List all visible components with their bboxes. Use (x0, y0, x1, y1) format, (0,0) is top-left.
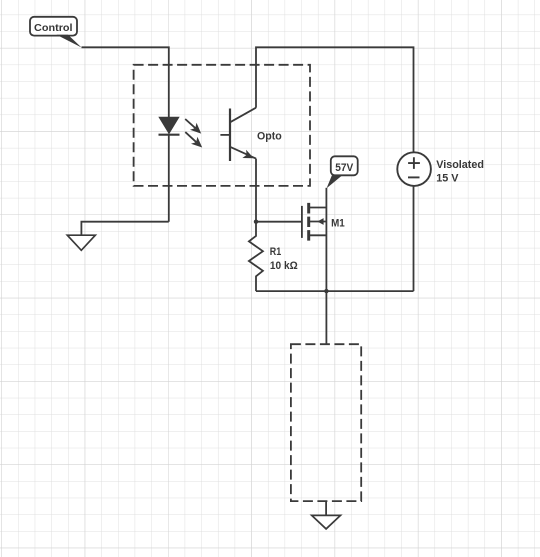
svg-text:Visolated: Visolated (436, 159, 484, 171)
light arrow 2 (185, 132, 202, 147)
wire LED cathode down (168, 135, 170, 222)
bottom rail wire (256, 290, 414, 292)
node Control callout (30, 17, 82, 48)
transistor M1 MOSFET (302, 203, 327, 241)
svg-text:Opto: Opto (257, 130, 282, 142)
ground bottom (312, 501, 341, 529)
node bottom rail junction (324, 289, 328, 293)
node 57V callout (327, 156, 358, 188)
svg-text:10 kΩ: 10 kΩ (270, 260, 298, 272)
svg-text:M1: M1 (331, 218, 345, 230)
load dashed box (291, 344, 361, 501)
svg-text:15 V: 15 V (436, 173, 459, 185)
wire Control to LED anode (82, 47, 169, 117)
wire LED cathode to left ground (81, 222, 168, 236)
node gate junction (254, 220, 258, 224)
ground left (67, 235, 95, 250)
label Visolated 15 V (436, 159, 484, 184)
phototransistor Q1 (220, 108, 256, 161)
resistor R1 10 kOhm (249, 222, 298, 291)
svg-text:R1: R1 (270, 246, 281, 258)
wire emitter down to gate node (255, 159, 257, 222)
wire drain vertical (325, 188, 327, 291)
optocoupler dashed box (134, 65, 310, 186)
wire to load box (325, 291, 327, 344)
LED D1 (159, 117, 180, 135)
wire source minus down to bottom rail (413, 186, 415, 291)
voltage source V1 (397, 152, 431, 186)
svg-text:Control: Control (34, 23, 73, 34)
light arrow 1 (185, 119, 201, 134)
svg-text:57V: 57V (335, 162, 354, 174)
wire collector up, top rail, down to source + (256, 47, 414, 151)
wire gate (256, 221, 302, 223)
